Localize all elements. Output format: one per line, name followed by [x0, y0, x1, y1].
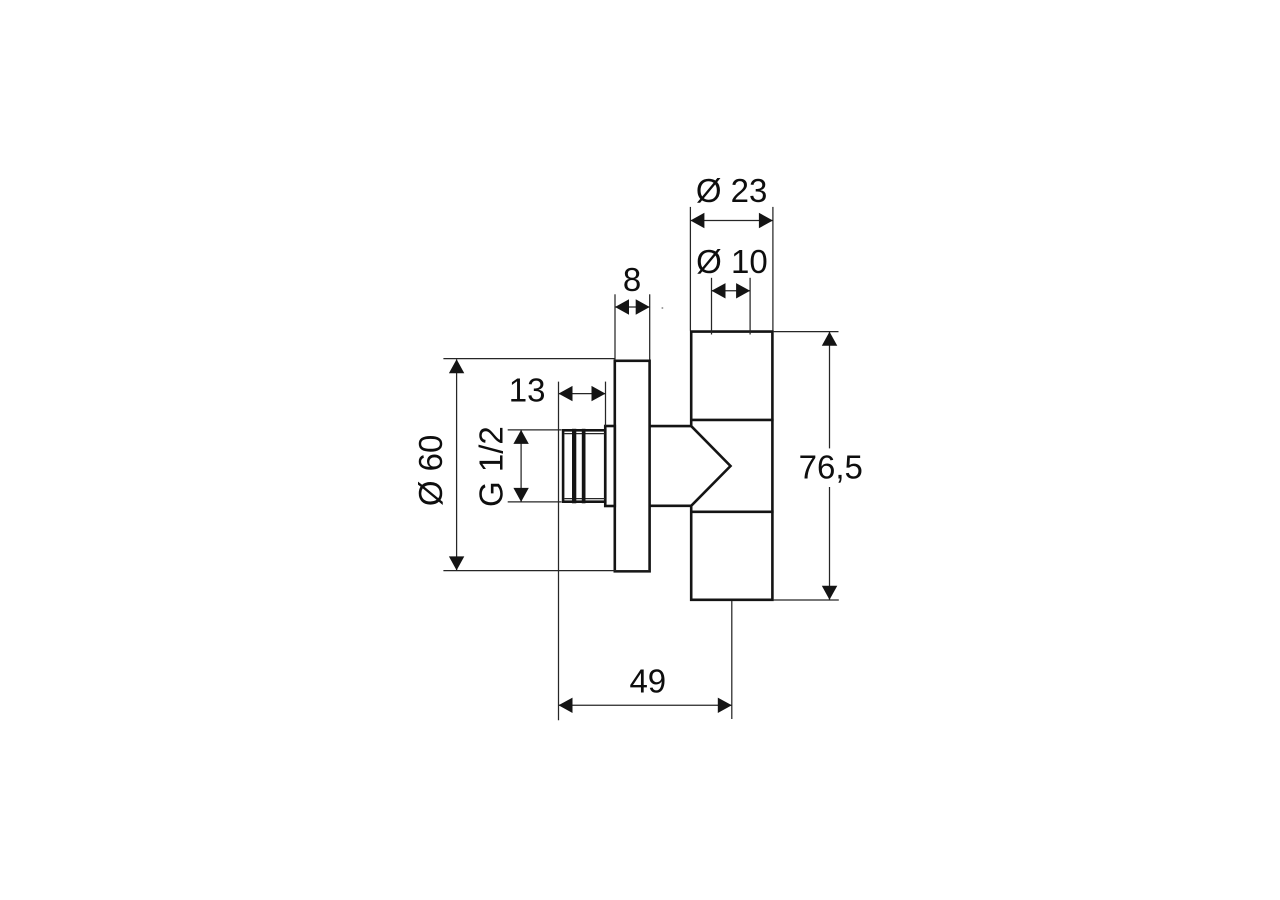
svg-text:Ø 23: Ø 23 [696, 172, 768, 209]
thread stripe 1 [572, 429, 576, 504]
dimension 49 arrows [559, 698, 732, 713]
dimension 13 arrows [559, 386, 606, 401]
dimension D60 label [412, 435, 449, 507]
dimension 76.5 label [799, 448, 863, 485]
dimension 49 line [559, 704, 732, 706]
dimension D60 line [456, 359, 458, 570]
wall flange [615, 361, 650, 572]
washer collar [605, 426, 615, 506]
dimension D23 arrows [690, 213, 773, 228]
threaded connector outline [563, 430, 605, 501]
dimension G 1/2 line [520, 430, 522, 502]
thread inner bottom line [565, 498, 606, 500]
svg-text:Ø 60: Ø 60 [412, 435, 449, 507]
svg-text:Ø 10: Ø 10 [696, 243, 768, 280]
thread stripe 2 [582, 429, 586, 504]
outlet spout with chevron [650, 426, 731, 506]
dimension D10 label [696, 243, 768, 280]
dimension 13 line [559, 393, 606, 395]
dimension D10 line [712, 290, 751, 292]
dimension D60 extension lines [443, 359, 649, 571]
body upper section line [690, 419, 774, 422]
dimension D60 arrows [449, 359, 464, 570]
dimension 49 label [629, 662, 666, 699]
dimension 8 line [615, 306, 650, 308]
valve body outline [691, 332, 772, 600]
dimension 8 extension lines [615, 294, 650, 359]
svg-text:13: 13 [509, 372, 546, 409]
svg-text:8: 8 [623, 261, 641, 298]
dimension 8 label [623, 261, 641, 298]
dimension G 1/2 arrows [513, 430, 528, 502]
dimension D23 extension lines [690, 207, 773, 331]
svg-text:49: 49 [629, 662, 666, 699]
dimension 13 label [509, 372, 546, 409]
dimension 76.5 line lower segment [829, 487, 831, 600]
body lower section line [690, 510, 774, 513]
dimension D23 label [696, 172, 768, 209]
faint speck artifact [662, 307, 664, 309]
dimension G 1/2 extension lines [508, 430, 562, 502]
dimension 49 extension lines [559, 382, 732, 721]
dimension G 1/2 label [473, 426, 510, 507]
thread inner top line [565, 433, 606, 435]
svg-text:76,5: 76,5 [799, 448, 863, 485]
svg-text:G 1/2: G 1/2 [473, 426, 510, 507]
dimension 13 extension line right [605, 382, 607, 426]
dimension 76.5 extension lines [773, 332, 839, 600]
dimension 76.5 line upper segment [829, 332, 831, 449]
dimension D10 extension lines [712, 278, 751, 335]
dimension 8 arrows [615, 299, 650, 314]
dimension D10 arrows [712, 283, 751, 298]
dimension D23 line [690, 220, 773, 222]
dimension 76.5 arrows [822, 332, 838, 600]
